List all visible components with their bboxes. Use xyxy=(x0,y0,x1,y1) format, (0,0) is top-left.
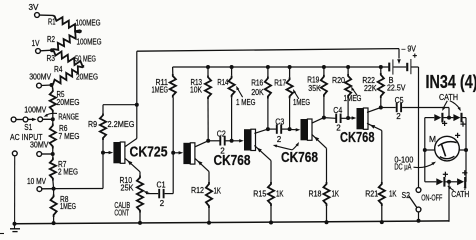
capacitor C3 2 xyxy=(268,118,290,144)
node R21 ground xyxy=(380,220,384,224)
transistor Q3 CK768 xyxy=(244,129,256,150)
terminal 3V xyxy=(29,3,40,17)
svg-text:22.5V: 22.5V xyxy=(387,83,406,92)
svg-text:R2: R2 xyxy=(47,35,55,44)
terminal 30MV xyxy=(30,141,49,157)
wiper arrow R10 xyxy=(143,191,149,194)
wiper arrow R20 xyxy=(351,86,357,95)
wire xyxy=(42,188,54,190)
ground xyxy=(10,224,20,232)
node 30MV tap xyxy=(51,152,55,156)
svg-text:C3: C3 xyxy=(275,118,284,127)
label AC INPUT xyxy=(10,132,43,142)
svg-text:2: 2 xyxy=(277,135,282,144)
svg-text:10 MV: 10 MV xyxy=(27,177,47,186)
svg-text:100MV: 100MV xyxy=(24,106,47,115)
svg-text:R12: R12 xyxy=(191,186,204,195)
node bridge top xyxy=(447,116,451,120)
wire 10MV feed xyxy=(54,188,103,190)
svg-text:R14: R14 xyxy=(217,78,228,87)
node collector Q1 xyxy=(135,103,139,107)
svg-text:10K: 10K xyxy=(190,86,203,95)
terminal 100MV label xyxy=(24,106,47,115)
emitter Q5 xyxy=(367,123,382,130)
svg-text:1V: 1V xyxy=(32,39,41,48)
label IN34 (4) xyxy=(426,72,476,92)
label CK768 Q5 xyxy=(340,130,375,146)
bottom rail xyxy=(15,221,450,224)
wire xyxy=(40,49,52,52)
label CK768 Q2 xyxy=(214,153,251,169)
potentiometer R10 25K CALIB xyxy=(120,172,144,223)
node R14 bus xyxy=(230,65,234,69)
diode D1 IN34 xyxy=(434,113,442,123)
wire meter left xyxy=(425,149,435,151)
plus mark D1 xyxy=(442,121,447,126)
wire collector drop xyxy=(125,51,137,146)
node chain-ground xyxy=(52,221,56,225)
transistor Q4 CK768 xyxy=(301,119,313,140)
resistor R16 20K xyxy=(251,67,271,129)
transistor Q5 CK768 xyxy=(357,108,369,129)
label CK725 xyxy=(130,145,168,161)
potentiometer R20 1MEG xyxy=(332,67,362,118)
node R17 bus xyxy=(288,65,292,69)
svg-text:1K: 1K xyxy=(332,190,340,199)
capacitor C2 2 xyxy=(208,130,231,156)
top rail -9V xyxy=(137,49,399,52)
terminal AC input low xyxy=(12,151,17,156)
resistor R9 2.2MEG xyxy=(88,113,135,140)
label -9V xyxy=(402,45,417,54)
wire meter right xyxy=(459,149,466,151)
potentiometer R14 1MEG xyxy=(217,67,255,141)
wiper arrow R14 xyxy=(236,86,242,97)
svg-text:22K: 22K xyxy=(364,84,377,93)
battery B 22.5V xyxy=(387,54,417,93)
node R20 bus xyxy=(346,65,350,69)
collector Q3 xyxy=(254,129,268,133)
svg-text:R15: R15 xyxy=(253,189,266,198)
wire base Q4 xyxy=(290,128,301,131)
svg-text:S1: S1 xyxy=(24,123,32,132)
svg-text:1MEG: 1MEG xyxy=(293,98,310,107)
label CATH bottom xyxy=(447,184,469,199)
resistor R5 20MEG xyxy=(50,85,80,119)
label CK768 Q3 Q4 xyxy=(281,150,318,166)
emitter Q2 xyxy=(195,158,209,171)
svg-text:C1: C1 xyxy=(157,180,166,189)
label CATH top xyxy=(439,93,461,111)
svg-text:CK725: CK725 xyxy=(130,145,168,161)
svg-text:R17: R17 xyxy=(274,78,286,87)
diode D2 IN34 xyxy=(453,113,461,123)
node R18 ground xyxy=(325,220,329,224)
plus mark D4 xyxy=(462,170,467,175)
plus mark D2 xyxy=(460,122,465,127)
wire xyxy=(418,212,420,221)
svg-text:30MV: 30MV xyxy=(30,141,49,150)
wire xyxy=(39,14,53,16)
emitter Q4 xyxy=(312,134,327,148)
wire xyxy=(103,151,113,154)
node R15 ground xyxy=(269,221,273,225)
svg-text:C4: C4 xyxy=(333,106,342,115)
svg-text:R4: R4 xyxy=(54,65,63,74)
node 10MV tap xyxy=(52,187,56,191)
svg-text:S2: S2 xyxy=(402,191,411,200)
svg-text:1K: 1K xyxy=(389,190,397,199)
bridge frame xyxy=(425,118,466,182)
svg-text:300MV: 300MV xyxy=(29,73,52,82)
svg-text:R16: R16 xyxy=(251,78,263,87)
plus mark D3 xyxy=(443,172,448,177)
svg-text:20K: 20K xyxy=(251,88,264,97)
plus mark meter xyxy=(455,133,460,138)
svg-text:100MEG: 100MEG xyxy=(76,18,101,27)
svg-text:C5: C5 xyxy=(395,96,404,105)
page mark xyxy=(0,233,4,235)
wire xyxy=(41,84,51,87)
resistor R1 100MEG xyxy=(48,15,101,31)
node 300MV tap xyxy=(50,83,54,87)
wire xyxy=(42,153,53,155)
svg-text:2: 2 xyxy=(396,112,401,121)
collector Q5 xyxy=(367,108,381,113)
transistor Q1 CK725 xyxy=(113,142,125,163)
node rail left end xyxy=(13,222,17,226)
node R19 bus xyxy=(322,65,326,69)
range wiper arrow RANGE xyxy=(44,113,79,122)
transistor Q2 CK768 xyxy=(183,143,195,164)
wire xyxy=(103,105,137,114)
svg-text:IN34 (4): IN34 (4) xyxy=(426,72,476,92)
resistor R12 1K xyxy=(191,172,221,223)
svg-text:2 MEG: 2 MEG xyxy=(58,167,78,176)
node R22 bus xyxy=(379,65,383,69)
svg-text:2: 2 xyxy=(220,146,225,155)
node collector Q3 xyxy=(266,127,270,131)
svg-text:1K: 1K xyxy=(214,186,222,195)
potentiometer R17 1MEG xyxy=(274,67,310,129)
wire xyxy=(173,151,183,154)
svg-text:3V: 3V xyxy=(29,3,40,12)
supply bus -22.5V xyxy=(173,66,389,68)
node base Q3 xyxy=(230,139,234,143)
node R10 ground xyxy=(138,221,142,225)
battery tap 9V arrow xyxy=(397,49,401,64)
resistor R7 2MEG xyxy=(50,154,78,189)
svg-text:– 9V: – 9V xyxy=(402,45,417,54)
svg-text:1MEG: 1MEG xyxy=(60,202,76,211)
resistor R19 35K xyxy=(307,67,327,118)
wire base Q3 xyxy=(232,139,244,142)
svg-text:R18: R18 xyxy=(309,189,322,198)
resistor R11 1MEG xyxy=(152,67,176,98)
node collector Q4 xyxy=(322,116,326,120)
svg-text:ON-OFF: ON-OFF xyxy=(421,193,442,202)
svg-text:7 MEG: 7 MEG xyxy=(59,132,80,141)
node R12 ground xyxy=(207,221,211,225)
node meter right xyxy=(464,148,468,152)
svg-text:R3: R3 xyxy=(47,54,56,63)
svg-text:R20: R20 xyxy=(332,76,345,85)
resistor R21 1K xyxy=(365,131,397,223)
wire xyxy=(14,156,16,224)
node base Q5 xyxy=(346,116,350,120)
node 100MV tap xyxy=(51,117,55,121)
svg-text:2: 2 xyxy=(160,199,165,208)
resistor R2 100MEG xyxy=(47,31,102,50)
resistor R8 1MEG xyxy=(51,189,77,224)
diode D4 IN34 xyxy=(457,177,465,187)
switch S1 xyxy=(11,117,51,132)
svg-text:M: M xyxy=(429,135,436,144)
pointer arrows CK768 xyxy=(273,142,299,150)
wiper arrow R17 xyxy=(293,89,299,99)
svg-text:1 MEG: 1 MEG xyxy=(236,98,256,107)
diode D3 IN34 xyxy=(436,177,444,187)
node bridge bottom xyxy=(447,180,451,184)
capacitor C5 2 xyxy=(381,96,449,121)
wire bridge feed xyxy=(448,108,450,118)
capacitor C4 2 xyxy=(324,106,348,133)
capacitor C1 2 xyxy=(146,180,173,207)
node collector Q2 xyxy=(206,139,210,143)
label CALIB CONT xyxy=(114,201,130,217)
wire base Q1 xyxy=(102,140,104,189)
terminal 10MV xyxy=(27,177,47,192)
resistor R22 22K xyxy=(362,67,384,108)
label 0-100 DC uA xyxy=(394,156,436,172)
svg-text:20MEG: 20MEG xyxy=(76,72,98,81)
node base Q2 xyxy=(171,151,175,155)
node S2 ground xyxy=(417,219,421,223)
svg-text:100MEG: 100MEG xyxy=(77,38,102,47)
resistor R6 7MEG xyxy=(50,119,80,154)
resistor R18 1K xyxy=(309,148,340,222)
svg-text:CK768: CK768 xyxy=(214,153,251,169)
resistor R13 10K xyxy=(190,67,211,141)
switch S2 ON-OFF xyxy=(402,188,443,212)
svg-text:RANGE: RANGE xyxy=(58,113,79,122)
node meter left xyxy=(423,148,427,152)
terminal 300MV xyxy=(29,73,52,89)
node base Q4 xyxy=(288,127,292,131)
wire xyxy=(411,67,419,188)
svg-text:CATH: CATH xyxy=(451,190,469,199)
terminal 1V xyxy=(32,39,41,53)
meter M xyxy=(429,135,459,161)
svg-text:1K: 1K xyxy=(276,190,284,199)
node R13 bus xyxy=(206,65,210,69)
svg-text:R21: R21 xyxy=(365,189,378,198)
collector Q4 xyxy=(312,118,324,124)
svg-text:C2: C2 xyxy=(217,130,226,139)
svg-text:1MEG: 1MEG xyxy=(344,94,362,103)
svg-text:35K: 35K xyxy=(308,84,321,93)
svg-text:2.2MEG: 2.2MEG xyxy=(108,120,135,129)
svg-text:R1: R1 xyxy=(48,18,56,27)
svg-text:25K: 25K xyxy=(121,184,135,193)
svg-text:DC μA: DC μA xyxy=(394,163,411,172)
collector Q2 xyxy=(195,141,208,147)
svg-text:20MEG: 20MEG xyxy=(57,98,80,107)
resistor R4 20MEG xyxy=(52,65,99,85)
svg-text:CK768: CK768 xyxy=(281,150,318,166)
wire base Q5 xyxy=(348,116,356,119)
svg-text:1MEG: 1MEG xyxy=(152,86,169,95)
node collector Q5 xyxy=(379,106,383,110)
svg-text:CK768: CK768 xyxy=(340,130,375,146)
svg-text:CATH: CATH xyxy=(439,93,458,102)
node 1V tap xyxy=(50,48,54,52)
emitter Q1 xyxy=(125,158,140,172)
node base Q1 xyxy=(101,151,105,155)
svg-text:R9: R9 xyxy=(88,120,97,129)
wire C1 to base Q2 xyxy=(172,98,174,194)
svg-text:CONT: CONT xyxy=(114,208,129,217)
svg-text:50 MEG: 50 MEG xyxy=(75,54,96,63)
wire bridge to ground xyxy=(448,182,450,222)
resistor R3 50MEG xyxy=(47,50,97,66)
node R16 bus xyxy=(266,65,270,69)
resistor R15 1K xyxy=(253,161,284,223)
emitter Q3 xyxy=(254,145,271,160)
